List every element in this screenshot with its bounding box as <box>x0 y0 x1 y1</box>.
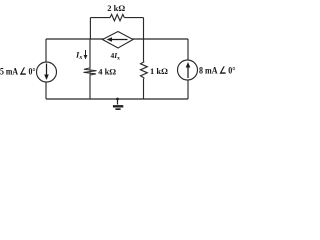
wire parallel box top left <box>90 17 110 19</box>
resistor R2 4k ohm zigzag <box>84 68 97 75</box>
wire 4k branch lower <box>89 75 91 99</box>
wire bottom ground rail <box>46 98 188 100</box>
wire parallel box left side <box>89 18 91 39</box>
wire 4k branch upper <box>89 39 91 68</box>
wire 1k branch lower <box>143 79 145 99</box>
wire left branch upper <box>45 39 47 62</box>
resistor R1 2k ohm zigzag <box>110 14 124 20</box>
wire 4k branch through resistor <box>89 68 91 76</box>
svg-text:8 mA ∠ 0°: 8 mA ∠ 0° <box>199 66 236 77</box>
wire main horizontal node line <box>46 38 188 40</box>
dependent source U1 diamond <box>103 32 134 49</box>
current source I1 arrow down <box>44 64 49 81</box>
svg-text:5 mA ∠ 0°: 5 mA ∠ 0° <box>0 67 36 78</box>
svg-text:1 kΩ: 1 kΩ <box>150 66 168 76</box>
current source I2 8mA circle <box>178 60 198 80</box>
wire parallel box right side <box>143 18 145 39</box>
wire left branch lower <box>45 82 47 99</box>
resistor R3 1k ohm zigzag <box>141 61 148 79</box>
current source I2 arrow up <box>186 62 191 78</box>
ground <box>113 98 123 110</box>
dependent source U1 arrow left <box>107 37 128 42</box>
current label Ix arrow down <box>84 50 88 60</box>
wire right branch lower <box>187 80 189 99</box>
wire 1k branch upper <box>143 39 145 61</box>
current source I1 5mA circle <box>37 62 57 82</box>
svg-text:4 kΩ: 4 kΩ <box>98 66 116 76</box>
wire right branch upper <box>187 39 189 60</box>
wire parallel box top right <box>124 17 143 19</box>
svg-text:2 kΩ: 2 kΩ <box>107 3 125 13</box>
